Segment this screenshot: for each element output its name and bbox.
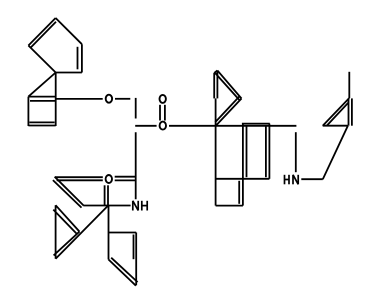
wire chain to ester O bbox=[135, 125, 156, 127]
wire O to chain bbox=[115, 98, 130, 100]
ring double bond left of O bbox=[55, 177, 103, 180]
lower cyclobutene ring bbox=[109, 233, 138, 286]
wire drop to HN bbox=[295, 132, 297, 172]
lower square ring bbox=[216, 181, 243, 206]
wire square to ether O bbox=[56, 98, 103, 100]
amide C=O double bond right of O bbox=[115, 177, 136, 181]
central cyclopropene triangle bbox=[214, 70, 241, 125]
wire Q down bbox=[108, 206, 110, 260]
horizontal wire through quaternary carbon to NH bbox=[83, 205, 130, 207]
carbonyl oxygen O bbox=[160, 95, 166, 103]
long diagonal Q to triangle bottom bbox=[56, 206, 109, 259]
amide oxygen O bbox=[106, 175, 112, 183]
chain vertical wire upper bbox=[135, 98, 137, 119]
O=O double bond bbox=[160, 105, 165, 121]
ether oxygen O bbox=[106, 95, 112, 103]
cyclobutene square ring bbox=[28, 73, 55, 127]
cyclopentadiene ring top-left bbox=[28, 18, 82, 73]
wire diagonal up to triangle bbox=[323, 126, 348, 180]
tall cyclobutene rectangle bbox=[242, 124, 270, 206]
main horizontal wire ester to right bbox=[169, 125, 296, 127]
wire spiro to square top-left bbox=[28, 73, 55, 97]
horizontal wire below center bbox=[216, 178, 270, 180]
central vertical wire through junction bbox=[215, 98, 217, 205]
double bond Q up to O bbox=[105, 185, 108, 205]
wire N to chain right bbox=[301, 178, 323, 180]
ester oxygen O bbox=[160, 122, 166, 130]
chain vertical wire lower bbox=[135, 132, 137, 199]
HN label bbox=[285, 175, 299, 185]
right cyclopropene triangle bbox=[323, 98, 352, 126]
NH label bbox=[133, 201, 147, 211]
methyl stick bbox=[348, 72, 350, 98]
ring diagonal double bond bbox=[53, 177, 84, 208]
left cyclopropene triangle bbox=[53, 205, 79, 259]
